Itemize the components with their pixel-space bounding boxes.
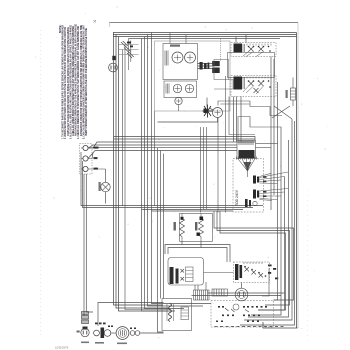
SW1 contact X 1 [249, 47, 254, 52]
SW2 contact X 1 [249, 81, 254, 86]
relay assembly rounded box [168, 258, 204, 286]
power connector P0 [109, 63, 118, 72]
TF top lead [292, 78, 294, 107]
power connector P0 pins [111, 66, 115, 70]
fuse drop wire [105, 169, 107, 182]
horizontal harness H1 wire 6 [88, 151, 237, 159]
horizontal harness H3 wire 3 [220, 211, 286, 310]
DS dots [244, 266, 266, 277]
right bundle C6 [240, 121, 295, 325]
oven lamp E5 [175, 97, 182, 104]
right bundle C2 [251, 127, 281, 315]
oven switch fan F1 wires [260, 172, 289, 184]
top left cluster wires [119, 45, 139, 55]
bend area labels [268, 265, 278, 280]
B2 switch diagonals [225, 308, 249, 312]
pin hatch row below P1 [237, 157, 257, 160]
wire B1 to B2 [192, 295, 282, 297]
oven lamp E5 marks [176, 99, 181, 103]
wire pair mid-left 1 [122, 50, 124, 207]
junction diagonals [272, 106, 292, 119]
bottom control box B1 [162, 299, 192, 331]
step wire lower [238, 117, 282, 141]
scan artifact dotted line right [307, 190, 309, 345]
outer sheet border [110, 23, 299, 329]
bottom plug pins [83, 331, 87, 335]
connector blob J1 [200, 62, 210, 70]
wire SW right vertical 2 [273, 59, 275, 195]
wire S1 feed a [169, 33, 171, 44]
B2 contact row 2 [222, 315, 260, 317]
surface unit box S1 [163, 44, 198, 80]
wire SW1 feed top 1 [235, 37, 237, 43]
oven switch fan F2 blob [253, 190, 259, 199]
B1 coil side marks [167, 304, 174, 321]
bottom right box edge [263, 322, 298, 328]
right bundle C4 [248, 140, 289, 317]
SW1 fan diagonals [243, 52, 264, 57]
oven switch fan F2 wires [260, 189, 289, 201]
registration mark top left [94, 20, 97, 23]
bake element resistor [180, 219, 185, 237]
lamp E2 [185, 52, 196, 63]
right bundle C5 [244, 119, 292, 320]
switch bank DS box [234, 262, 270, 283]
svg-text:L0310576: L0310576 [55, 346, 69, 350]
wire SW1 feed top 2 [245, 35, 247, 43]
wire light top to right step 1 [218, 101, 282, 116]
SW2 fan diagonals [243, 86, 264, 94]
resistor terminal blobs [181, 217, 204, 236]
surface unit box S2 [164, 81, 197, 98]
lamp E3 filament [175, 86, 181, 92]
bottom cluster dark rect [101, 328, 105, 339]
relay small box ticks [186, 271, 194, 278]
SW2 contact X 2 [259, 81, 264, 86]
broil element leads [200, 214, 202, 242]
SW1 contact X 2 [259, 47, 264, 52]
fuse label [99, 182, 101, 191]
wire cluster riser [98, 303, 164, 327]
scan speckles [35, 6, 327, 338]
B1 small connector [181, 307, 189, 320]
wire cross under light [158, 118, 218, 123]
wire SW2 drop 1 [233, 97, 235, 142]
broil label [195, 222, 197, 231]
bottom left stacked connector 1 [82, 316, 89, 320]
SW2 top tick labels [247, 77, 271, 79]
DS contact X3 [259, 273, 264, 278]
component sublabels [81, 342, 127, 345]
right border wire [296, 33, 298, 329]
pin header block P1 pin ticks [239, 141, 253, 146]
indicator light E6 [213, 108, 223, 118]
wire bundle B1 [158, 148, 164, 333]
motor M1 lead [241, 283, 243, 289]
thermal fuse TF hatch [291, 91, 296, 97]
SW2 connector blob [234, 77, 243, 90]
DS blob [235, 264, 242, 280]
outer sheet border top line [110, 22, 299, 24]
B2 contact row 3 [216, 321, 259, 323]
top left diag connector pair 2 [124, 47, 131, 53]
thermal fuse label [286, 90, 288, 98]
wire SW2 drop 3 [240, 97, 242, 142]
fan-in triangle blob [244, 162, 252, 170]
left border wire L3 [119, 37, 176, 312]
wire S1 to blobs 1 [198, 63, 215, 65]
bottom plug circle [81, 328, 89, 336]
lamp E4 filament [187, 86, 193, 92]
element box EB [228, 53, 275, 78]
wire bundle A2 [145, 37, 185, 309]
relay small box [186, 267, 194, 282]
dashed drop wire into J2 [219, 39, 221, 62]
wire bundle A4 [152, 33, 212, 304]
element bottom drops [182, 241, 201, 247]
infinite switch cluster SW1 box [231, 43, 276, 57]
hatched header HB1 [194, 290, 210, 300]
wire E6 down to oven box [217, 118, 219, 213]
wire light left drop [206, 98, 208, 108]
lamp E2 filament [187, 54, 193, 60]
terminal ring T1 [83, 145, 88, 150]
wire S1 feed b [185, 35, 187, 44]
wire P1 right 2 [256, 147, 272, 149]
oven element box [180, 214, 213, 242]
TOD dashed box [233, 159, 264, 213]
bottom cluster small circle 2 [104, 330, 111, 337]
terminal ring T3 [83, 166, 88, 171]
top section enclosure box [155, 41, 231, 111]
wire SW right vertical 1 [270, 57, 272, 211]
horizontal harness H1 wire 1 [114, 137, 256, 141]
relay drop wires [195, 282, 206, 290]
SW2 contact X 3 [254, 88, 259, 93]
wire S1 to blobs 2 [198, 65, 215, 67]
wire caps to B1 [140, 332, 164, 334]
wire SW2 drop 2 [236, 97, 238, 142]
wire bundle A1 [142, 39, 169, 312]
main top border line 4 [129, 38, 281, 40]
horizontal harness H1 wire 3 [88, 145, 237, 148]
main top border line 3 [113, 36, 297, 38]
oven switch fan F1 blob [253, 176, 259, 184]
broil element resistor [199, 219, 204, 237]
wire header link [208, 292, 285, 294]
small caps right of motor [130, 331, 135, 336]
pin header block P1 body band [239, 150, 255, 158]
bottom cluster top marks [95, 323, 106, 325]
infinite switch cluster SW2 box [231, 76, 276, 97]
extra nested bend [262, 268, 269, 296]
horizontal harness H3 wire 1 [214, 211, 294, 300]
B2 inner circle [233, 304, 239, 310]
B1 small connector ticks [181, 310, 189, 316]
motor M1 brushes [240, 292, 244, 297]
lamp E3 [173, 84, 181, 92]
fuse F cross [102, 184, 108, 190]
left drop wire to cluster [86, 174, 93, 312]
terminal labels BK W R [94, 147, 99, 170]
horizontal harness H4 wire 1 [165, 245, 230, 263]
hatched header HB2 [212, 289, 228, 296]
horizontal harness H1 wire 4 [88, 142, 255, 148]
right bundle C3 [258, 177, 285, 311]
horizontal harness H2 wire 2 [83, 161, 254, 208]
wire P1 right 1 [256, 143, 278, 145]
B2 bottom label row [215, 326, 284, 328]
wire triangle stub [247, 170, 249, 177]
border line 4 corner drop [129, 39, 131, 71]
connector blob J2 [212, 61, 220, 73]
SW1 top tick labels [247, 44, 271, 46]
lamp E4 [185, 84, 193, 92]
main top border line 2 [113, 34, 297, 36]
SW1 connector hatch [243, 44, 245, 52]
wire bundle B3 [163, 154, 165, 299]
DS contact X1 [245, 267, 250, 272]
hatched header HB2 ticks [214, 289, 224, 296]
blob cluster J3 [203, 105, 213, 118]
SW2 terminal dots [248, 80, 271, 88]
TOD internal circle [253, 201, 257, 205]
bottom cluster small circle 1 [94, 330, 100, 336]
relay assembly coil blob [170, 267, 179, 284]
wire S1 to blobs 3 [198, 68, 215, 70]
SW1 connector blob [234, 44, 243, 53]
lamp E1 [172, 52, 183, 63]
top left diag connector pair 3 [127, 52, 134, 58]
wire bundle B0 [154, 111, 156, 206]
lamp E1 filament [174, 55, 181, 61]
wire bundle B2 [160, 151, 162, 299]
S1 terminal labels [170, 45, 180, 47]
door motor M2 inner [118, 329, 127, 338]
convection motor M1 [235, 288, 248, 301]
SW2 connector hatch [243, 77, 245, 89]
DS top ticks [244, 262, 262, 264]
wire relay to DS [204, 272, 234, 274]
horizontal harness H2 wire 4 [152, 210, 234, 212]
door motor M2 marks [121, 330, 125, 336]
relay contact marks [181, 269, 185, 281]
E5 drop wire [178, 104, 180, 111]
TOD internal cluster [245, 199, 251, 207]
hatched header HB1 ticks [196, 290, 208, 300]
terminal T2 stubs [81, 154, 93, 159]
clock switch dashed box B2 [211, 301, 274, 328]
hatch strip in S2 [166, 84, 169, 94]
top left diag connector pair 1 [121, 41, 128, 47]
wire cluster to motor [111, 332, 116, 334]
main top border line 1 [113, 32, 297, 34]
indicator light E6 marks [215, 110, 221, 116]
terminal T3 stubs [81, 168, 106, 170]
terminal T1 stubs [81, 147, 90, 149]
thermal fuse TF [291, 88, 296, 100]
fan-in below P1 [239, 160, 255, 172]
B2 contact row 1 [218, 306, 267, 308]
wire blob to light [210, 109, 214, 111]
fan wire labels [263, 176, 266, 197]
horizontal harness H2 wire 1 [81, 152, 263, 206]
right bundle C1 [274, 82, 278, 300]
small caps right of motor 2 [135, 331, 140, 336]
wire bundle A3 [148, 35, 204, 307]
SW1 terminal dots [248, 46, 271, 52]
bake label [174, 222, 176, 231]
relay box K1 [214, 60, 229, 80]
left drop wire to plug [83, 174, 85, 316]
bottom left stacked connector 2 [82, 320, 89, 324]
left border wire L1 [114, 33, 164, 306]
wire pair mid-left 2 [125, 45, 170, 310]
door motor M2 outer [116, 327, 129, 340]
element feed wires [201, 127, 207, 213]
svg-text:VERIFY PROPER OPERATION AFTER: VERIFY PROPER OPERATION AFTER SERVICING … [84, 28, 88, 136]
cluster labels mid [108, 326, 136, 330]
scan artifact dotted line left [40, 30, 42, 335]
svg-text:TOD 240V: TOD 240V [235, 189, 239, 206]
note text block (rotated service notes) [58, 24, 88, 139]
terminal ring T2 [83, 156, 88, 161]
wire light top to right step 2 [221, 103, 250, 105]
B1 coil squiggle [169, 304, 172, 322]
horizontal harness H1 wire 2 [114, 138, 256, 140]
horizontal harness H2 wire 3 [142, 209, 244, 211]
bake element leads [181, 214, 183, 242]
convection motor M1 inner [238, 291, 246, 299]
wire SW2 drop 4 [229, 97, 255, 135]
horizontal harness H1 wire 5 [90, 147, 237, 149]
left border wire L2 [116, 35, 168, 309]
hatch strip in S1 [165, 51, 168, 66]
plug label [77, 331, 80, 333]
wire K1 down [225, 76, 227, 213]
fuse F [101, 182, 110, 191]
horizontal harness H3 wire 2 [217, 211, 290, 305]
DS contact X2 [252, 270, 257, 275]
pin header block P1 [237, 141, 256, 159]
bottom plug cap [83, 327, 88, 330]
fuse F lower wire [105, 192, 107, 204]
left plug connector group box [80, 144, 93, 175]
horizontal harness H4 wire 2 [168, 248, 227, 263]
bottom left stacked connector 3 [82, 312, 89, 315]
